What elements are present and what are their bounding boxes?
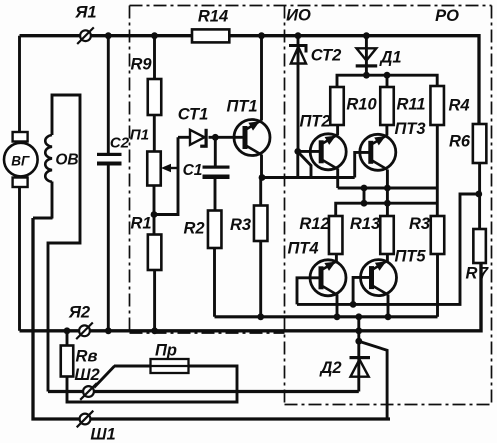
dash-dot frame: left box left edge	[129, 6, 131, 334]
dash-dot frame: outer box top edge	[130, 5, 492, 7]
node junction dot 7 at (387,75.2)	[384, 72, 391, 79]
resistor R7	[473, 229, 486, 263]
resistor R3	[254, 206, 268, 242]
svg-text:С2: С2	[110, 135, 130, 152]
wire PT4 base	[297, 278, 322, 305]
svg-text:ИО: ИО	[286, 7, 311, 25]
svg-text:Пр: Пр	[155, 342, 177, 360]
terminal Sh1	[77, 411, 94, 428]
svg-text:ОВ: ОВ	[55, 152, 78, 169]
wire PT2 base	[298, 150, 322, 153]
wire Sh2 line to D2 anode	[48, 390, 359, 393]
svg-text:R1: R1	[130, 215, 151, 233]
node junction dot 22 at (358.8,316.8)	[355, 313, 362, 320]
label PT1	[226, 98, 257, 116]
wire PT5 base leg	[353, 277, 371, 304]
wire OV bottom jog	[33, 217, 53, 220]
label P1	[130, 127, 149, 144]
zener CT2	[289, 44, 308, 64]
node junction dot 3 at (261.5,35.7)	[258, 32, 265, 39]
transistor PT5	[361, 260, 397, 296]
svg-text:С1: С1	[183, 162, 203, 179]
svg-text:7: 7	[479, 265, 489, 283]
wire PT5 collector drop	[387, 295, 390, 317]
wire R4 to R3b vertical	[436, 125, 439, 216]
wire PT3 emitter lead	[385, 125, 388, 136]
diode D1	[356, 48, 378, 67]
svg-text:ПТ2: ПТ2	[299, 113, 330, 131]
label PT4	[287, 240, 318, 258]
wire PT4 collector drop	[336, 295, 339, 317]
wire D2 through lead	[357, 317, 360, 392]
transistor PT3	[360, 134, 396, 170]
resistor R1	[148, 235, 162, 271]
label D2	[318, 359, 341, 377]
transistor PT1	[234, 120, 270, 156]
wire R12 bottom to PT4 emitter	[335, 254, 338, 262]
svg-text:Д1: Д1	[378, 49, 401, 67]
wire base rail H_base	[297, 194, 479, 304]
svg-text:Ш2: Ш2	[74, 366, 99, 384]
label R2	[183, 220, 204, 238]
terminal Ya2	[76, 323, 93, 340]
dash-dot frame: right box bottom edge	[285, 404, 492, 406]
wire H1 collector rail	[338, 187, 438, 190]
wire P1 wiper arrow	[161, 164, 178, 172]
node junction dot 1 at (108.3,35.7)	[105, 32, 112, 39]
terminal Sh2	[80, 383, 97, 400]
diode CT1	[190, 129, 208, 148]
node junction dot 23 at (388,316.8)	[385, 313, 392, 320]
wire R10 bottom to PT2 emitter	[336, 125, 339, 135]
wire base node drop	[296, 151, 299, 177]
wire H2 rail to R12 top	[336, 203, 438, 216]
label Sh1	[90, 426, 115, 443]
label R13	[350, 215, 380, 233]
wire C1 top lead	[214, 137, 217, 167]
svg-text:Я1: Я1	[74, 4, 96, 22]
wire Rv top lead	[66, 331, 69, 346]
svg-text:ПТ3: ПТ3	[394, 120, 425, 138]
label Ya2	[68, 304, 90, 322]
wire R3b bottom lead	[436, 254, 439, 317]
wire PT2 collector drop	[336, 169, 339, 189]
resistor Rv	[61, 346, 74, 377]
label Ya1	[74, 4, 96, 22]
transistor PT2	[310, 134, 346, 170]
label Sh2	[74, 366, 99, 384]
wire PT1 collector node to PT2 base node	[262, 176, 355, 179]
generator VG	[4, 132, 38, 187]
label R4	[448, 97, 469, 115]
label R10	[346, 96, 377, 114]
dash-dot frame: left box bottom edge	[130, 332, 285, 334]
label Rv	[76, 348, 98, 366]
wire D1 through lead	[365, 36, 368, 75]
svg-text:R6: R6	[449, 133, 471, 151]
wire sub-rail R10 R11 R4 tops	[337, 75, 437, 87]
node junction dot 20 at (260.7,316.8)	[257, 313, 264, 320]
node junction dot 21 at (337,316.8)	[334, 313, 341, 320]
label C2	[110, 135, 130, 152]
wire PT1 emitter lead	[260, 36, 263, 121]
svg-text:П1: П1	[130, 127, 149, 144]
label IO box	[286, 7, 311, 25]
wire PT1 collector lead	[260, 155, 263, 178]
wire CT2 through lead	[297, 36, 300, 152]
svg-text:R2: R2	[183, 220, 204, 238]
label R3b	[409, 215, 430, 233]
label R12	[299, 215, 329, 233]
resistor R6	[473, 124, 487, 163]
node junction dot 5 at (366.4,35.7)	[363, 32, 370, 39]
resistor R12	[329, 216, 343, 254]
svg-text:РО: РО	[435, 7, 459, 25]
svg-text:R11: R11	[396, 96, 425, 114]
node junction dot 13 at (387.4,188)	[384, 185, 391, 192]
field winding OV	[45, 135, 52, 182]
resistor R2	[208, 211, 222, 249]
svg-text:ПТ5: ПТ5	[394, 248, 426, 266]
wire link H1-H2	[363, 188, 366, 203]
svg-text:Я2: Я2	[68, 304, 90, 322]
wire R1 bottom lead	[153, 270, 156, 331]
svg-text:R12: R12	[299, 215, 329, 233]
capacitor C2	[97, 153, 122, 166]
wire bottom bus Ya2 node	[20, 263, 482, 331]
svg-text:R13: R13	[350, 215, 380, 233]
wire C1 to R2	[214, 179, 217, 211]
node junction dot 26 at (358.8,341.2)	[355, 338, 362, 345]
node junction dot 14 at (364,203.2)	[361, 200, 368, 207]
wire R13 bottom to PT5 emitter	[386, 254, 389, 262]
resistor R10	[330, 87, 344, 125]
label R6	[449, 133, 471, 151]
fuse Pr	[151, 359, 189, 373]
wire PT3 base leg	[355, 152, 372, 177]
wire OV bottom lead	[51, 182, 54, 219]
wire C2 top lead	[107, 36, 110, 155]
wire R11 top lead	[386, 75, 389, 87]
label R11	[396, 96, 425, 114]
label R9	[130, 56, 152, 74]
label C1	[183, 162, 203, 179]
wire Sh2 diagonal to fuse line	[94, 366, 115, 388]
svg-text:ВГ: ВГ	[11, 154, 30, 169]
node junction dot 15 at (387.4,203.2)	[384, 200, 391, 207]
wire P1 to R1	[153, 186, 156, 235]
dash-dot frame: divider between left box and IO box	[284, 6, 286, 405]
svg-text:ПТ1: ПТ1	[226, 98, 257, 116]
node junction dot 6 at (366.4,75.2)	[363, 72, 370, 79]
svg-text:R14: R14	[198, 8, 228, 26]
svg-text:Д2: Д2	[318, 359, 341, 377]
node junction dot 16 at (67,330.8)	[64, 327, 71, 334]
resistor R14	[192, 29, 229, 42]
svg-text:Ш1: Ш1	[90, 426, 115, 443]
label PT5	[394, 248, 426, 266]
svg-text:ПТ4: ПТ4	[287, 240, 318, 258]
node junction dot 9 at (297.8,151.4)	[294, 148, 301, 155]
label R7	[466, 265, 489, 283]
node junction dot 19 at (358.8,330.8)	[355, 327, 362, 334]
resistor R3b	[431, 216, 445, 254]
label D1	[378, 49, 401, 67]
svg-text:Rв: Rв	[76, 348, 98, 366]
node junction dot 12 at (364,188)	[361, 185, 368, 192]
wire D2 branch to Sh1 line	[359, 341, 387, 419]
wire top rail Ya1 node	[20, 36, 480, 124]
label Pr	[155, 342, 177, 360]
resistor R13	[380, 216, 394, 254]
wire R9 top lead	[153, 36, 156, 79]
wire Rv bottom to fuse line	[67, 366, 237, 402]
wire PT1 collector to R3 top	[259, 178, 262, 206]
wire R3 bottom lead	[259, 241, 262, 317]
wire CT1 cathode to PT1 base	[209, 136, 246, 139]
wire R6 to R7	[478, 163, 481, 229]
label CT1	[178, 106, 209, 124]
node junction dot 8 at (215.3,137.3)	[212, 134, 219, 141]
node junction dot 10 at (262,177.5)	[259, 174, 266, 181]
label R3	[230, 216, 251, 234]
wire R2 bottom lead	[213, 248, 216, 317]
wire P1 wiper return	[154, 137, 178, 214]
resistor R9	[148, 79, 162, 115]
node junction dot 11 at (154,214.5)	[151, 211, 158, 218]
svg-text:R: R	[466, 265, 478, 283]
wire base node diagonal jog	[299, 153, 311, 178]
node junction dot 2 at (154.5,35.7)	[151, 32, 158, 39]
terminal Ya1	[77, 27, 94, 44]
transistor PT4	[310, 260, 346, 296]
wire generator top lead	[18, 36, 21, 133]
wire C2 bottom lead	[107, 164, 110, 331]
label R14	[198, 8, 228, 26]
svg-text:СТ2: СТ2	[311, 47, 342, 65]
svg-text:R9: R9	[130, 56, 152, 74]
label PT2	[299, 113, 330, 131]
wire generator bottom lead	[18, 187, 21, 331]
svg-text:СТ1: СТ1	[178, 106, 209, 124]
wire R9 to P1	[153, 115, 156, 152]
dash-dot frame: right box right edge	[491, 6, 493, 405]
svg-text:R10: R10	[346, 96, 377, 114]
potentiometer P1	[147, 152, 161, 186]
svg-text:R4: R4	[448, 97, 469, 115]
label OV	[55, 152, 78, 169]
diode D2	[350, 356, 371, 377]
wire OV top loop	[48, 95, 80, 392]
wire Sh1 line	[33, 218, 390, 419]
node junction dot 4 at (298,35.7)	[295, 32, 302, 39]
capacitor C1	[203, 166, 230, 180]
resistor R4	[430, 86, 444, 125]
node junction dot 17 at (108.3,330.8)	[105, 327, 112, 334]
node junction dot 25 at (478.8,194)	[475, 191, 482, 198]
wire CT1 anode lead	[178, 136, 190, 139]
svg-text:R3: R3	[409, 215, 430, 233]
label RO box	[435, 7, 459, 25]
label CT2	[311, 47, 342, 65]
wire PT3 collector to R13	[386, 170, 389, 217]
label PT3	[394, 120, 425, 138]
node junction dot 24 at (353.1,304.4)	[350, 301, 357, 308]
svg-text:R3: R3	[230, 216, 251, 234]
node junction dot 18 at (154.6,330.8)	[151, 327, 158, 334]
wire node line R2-R3 bottoms to R3b	[215, 315, 438, 318]
resistor R11	[380, 87, 394, 125]
label R1	[130, 215, 151, 233]
